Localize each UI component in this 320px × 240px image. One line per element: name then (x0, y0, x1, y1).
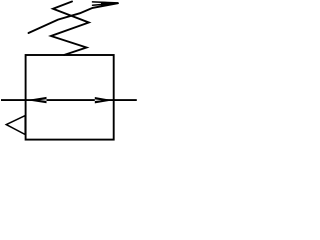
wire: flow path line through body (1, 99, 137, 101)
arrowhead left (flow to left port) (26, 97, 46, 103)
adjustment arrow head (93, 2, 119, 7)
arrowhead right (flow to right port) (95, 97, 113, 103)
spring (zigzag) on top of body (51, 2, 89, 56)
relief exhaust triangle on left edge (6, 116, 25, 135)
valve body box (26, 55, 114, 140)
adjustment arrow shaft (29, 3, 119, 33)
